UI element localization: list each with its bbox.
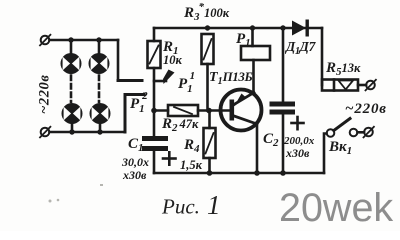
wire R2 right to base [198, 109, 230, 112]
node emitter-rail junction [254, 170, 260, 176]
node C2-rail junction [280, 170, 286, 176]
switch Vk1 [327, 119, 364, 137]
wire top lamp row [50, 39, 119, 42]
wire rail drop to R1 [153, 28, 156, 41]
label C2 value [263, 131, 315, 160]
wire R2 left [154, 109, 168, 112]
wire R5 to terminal [358, 84, 366, 87]
wire R1 down [153, 68, 156, 136]
terminal X1 top-left [40, 35, 50, 46]
wire collector lead up [252, 60, 255, 93]
node R4-rail junction [207, 170, 213, 176]
wire R4 up [208, 111, 211, 129]
wire contact to bottom row [124, 97, 126, 132]
node base-divider junction [151, 108, 157, 114]
wire lamp lead [98, 40, 101, 54]
contact P1-2 moving bar [125, 95, 144, 133]
wire C1 to ground rail [153, 151, 156, 173]
label R4 value [180, 137, 203, 172]
plus sign C1 [163, 152, 176, 164]
diode D1 [292, 20, 309, 37]
node rail-R3 junction [205, 25, 210, 30]
node junction bottom a [69, 129, 74, 134]
lamp Л1 [61, 53, 82, 74]
wire lamp lead [70, 40, 73, 54]
svg-text:30,0х: 30,0х [121, 155, 149, 169]
svg-text:~220в: ~220в [345, 101, 387, 117]
svg-text:Д1Д7: Д1Д7 [284, 39, 317, 57]
wire dashed garland continuation right [98, 76, 101, 103]
wire rail up to switch [324, 134, 327, 174]
wire lamp lead [99, 124, 102, 132]
svg-text:Т1П13Б: Т1П13Б [209, 69, 252, 87]
plus sign C2 [292, 117, 304, 129]
svg-text:R247к: R247к [161, 116, 199, 134]
wire emitter lead down [256, 124, 259, 173]
wire bottom lamp row [50, 131, 125, 134]
wire lamp lead [71, 124, 74, 132]
wire relay to rail [251, 28, 254, 46]
label C1 value [121, 136, 149, 182]
svg-text:1,5к: 1,5к [180, 158, 203, 172]
resistor R3 body [202, 34, 214, 64]
svg-text:R513к: R513к [325, 60, 361, 78]
svg-text:10к: 10к [163, 53, 183, 67]
resistor R2 body [168, 105, 198, 116]
wire R4 down [208, 158, 211, 173]
svg-text:х30в: х30в [122, 168, 147, 182]
wire C2 down lead [282, 115, 285, 174]
contact P1-2 fixed bar [118, 79, 142, 82]
wire rail corner down to R5 [321, 28, 324, 85]
svg-text:Вк1: Вк1 [328, 139, 352, 157]
svg-text:Р11: Р11 [178, 70, 195, 95]
terminal X2 bottom-left [40, 127, 50, 138]
node junction bottom b [97, 129, 102, 134]
wire dashed garland continuation left [70, 76, 73, 103]
node rail-relay junction [250, 25, 255, 30]
svg-text:~220в: ~220в [37, 75, 53, 115]
wire to contact P1-2 [117, 40, 120, 80]
lamp Л4 [90, 103, 111, 124]
wire C2 up lead [282, 28, 285, 102]
label R3 value [183, 1, 230, 23]
scan background tint band [40, 20, 376, 176]
svg-text:20wek: 20wek [279, 186, 393, 230]
capacitor C1 plates [142, 136, 168, 151]
node rail-C2 junction [280, 25, 285, 30]
resistor R5 body with varistor mark [322, 80, 358, 91]
node junction top a [68, 37, 73, 42]
svg-text:R4: R4 [183, 137, 200, 155]
node junction top b [96, 37, 101, 42]
resistor R4 body [204, 128, 216, 158]
relay P1 coil [241, 46, 270, 60]
scan speckles [49, 184, 104, 203]
svg-text:R3*100к: R3*100к [183, 1, 230, 23]
capacitor C2 plates [270, 102, 296, 115]
resistor R1 body [148, 41, 161, 68]
node base junction [206, 108, 212, 114]
label R1 value [162, 39, 183, 67]
lamp Л3 [62, 103, 83, 124]
wire R3 down [206, 64, 209, 111]
svg-text:Р1: Р1 [236, 31, 251, 49]
lamp Л2 [89, 53, 110, 74]
svg-text:С2: С2 [263, 131, 279, 149]
svg-text:х30в: х30в [285, 146, 310, 160]
terminal X4 right-bottom [364, 127, 374, 138]
svg-text:Рис.: Рис. [161, 195, 200, 219]
svg-text:1: 1 [207, 190, 221, 220]
svg-text:С1: С1 [128, 136, 144, 154]
transistor T1 body [221, 90, 262, 131]
terminal X3 right [366, 80, 376, 91]
contact P1-1 arm [154, 70, 175, 85]
bottom rail [154, 172, 324, 175]
top supply rail [154, 27, 322, 30]
